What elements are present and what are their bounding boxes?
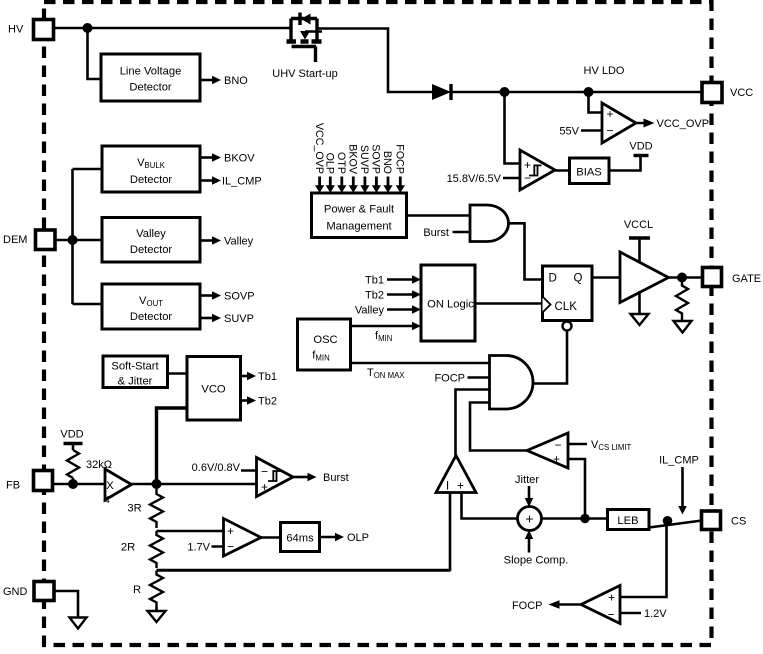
svg-text:32kΩ: 32kΩ xyxy=(86,459,112,471)
svg-text:R: R xyxy=(133,584,141,596)
svg-text:BKOV: BKOV xyxy=(347,144,359,175)
svg-text:Slope Comp.: Slope Comp. xyxy=(504,555,569,567)
svg-text:+: + xyxy=(525,511,533,527)
svg-text:& Jitter: & Jitter xyxy=(118,376,153,388)
svg-text:+: + xyxy=(608,591,615,605)
svg-text:Tb1: Tb1 xyxy=(365,275,384,287)
svg-text:IL_CMP: IL_CMP xyxy=(222,176,262,188)
svg-text:D: D xyxy=(549,273,557,285)
svg-text:HV LDO: HV LDO xyxy=(584,65,625,77)
svg-text:−: − xyxy=(607,608,614,622)
svg-text:64ms: 64ms xyxy=(286,533,314,545)
svg-text:VDD: VDD xyxy=(629,141,652,153)
svg-text:+: + xyxy=(553,452,560,466)
svg-text:DEM: DEM xyxy=(3,234,27,246)
svg-text:HV: HV xyxy=(8,24,24,36)
svg-text:+: + xyxy=(524,158,531,172)
svg-text:X: X xyxy=(106,480,114,492)
svg-text:ON Logic: ON Logic xyxy=(427,299,474,311)
svg-text:Valley: Valley xyxy=(355,305,385,317)
svg-text:Tb2: Tb2 xyxy=(258,396,277,408)
svg-text:+: + xyxy=(606,107,613,121)
svg-text:−: − xyxy=(261,465,268,479)
svg-text:Tb1: Tb1 xyxy=(258,371,277,383)
svg-text:BIAS: BIAS xyxy=(576,167,602,179)
svg-text:Jitter: Jitter xyxy=(515,474,540,486)
svg-text:CS: CS xyxy=(731,516,746,528)
svg-text:OSC: OSC xyxy=(313,334,337,346)
svg-text:−: − xyxy=(554,438,561,452)
svg-text:+: + xyxy=(227,524,234,538)
svg-text:Detector: Detector xyxy=(130,311,173,323)
svg-text:GATE: GATE xyxy=(732,273,761,285)
svg-text:Management: Management xyxy=(326,221,392,233)
svg-text:1.7V: 1.7V xyxy=(187,542,210,554)
svg-text:Tb2: Tb2 xyxy=(365,290,384,302)
svg-text:Power & Fault: Power & Fault xyxy=(324,204,395,216)
svg-text:1.2V: 1.2V xyxy=(644,608,667,620)
svg-text:55V: 55V xyxy=(559,126,579,138)
svg-text:VCO: VCO xyxy=(201,384,226,396)
svg-text:Line Voltage: Line Voltage xyxy=(120,66,182,78)
svg-text:Q: Q xyxy=(574,273,583,285)
svg-text:Soft-Start: Soft-Start xyxy=(111,361,159,373)
svg-text:Detector: Detector xyxy=(130,174,173,186)
svg-text:BNO: BNO xyxy=(224,75,248,87)
svg-text:0.6V/0.8V: 0.6V/0.8V xyxy=(192,462,241,474)
svg-text:Burst: Burst xyxy=(323,472,349,484)
svg-text:−: − xyxy=(227,540,234,554)
svg-text:15.8V/6.5V: 15.8V/6.5V xyxy=(447,173,502,185)
svg-text:−: − xyxy=(606,124,613,138)
svg-text:FOCP: FOCP xyxy=(434,373,465,385)
svg-text:BNO: BNO xyxy=(381,151,393,174)
svg-text:OLP: OLP xyxy=(347,532,369,544)
svg-text:VCC_OVP: VCC_OVP xyxy=(657,118,710,130)
svg-text:FB: FB xyxy=(6,480,20,492)
svg-text:4: 4 xyxy=(104,495,110,506)
svg-text:VCC: VCC xyxy=(730,87,753,99)
svg-text:2R: 2R xyxy=(121,542,135,554)
svg-text:SOVP: SOVP xyxy=(224,291,255,303)
svg-text:LEB: LEB xyxy=(617,515,638,527)
svg-text:VCCL: VCCL xyxy=(624,219,653,231)
svg-text:CLK: CLK xyxy=(555,301,578,313)
svg-text:SUVP: SUVP xyxy=(358,145,370,174)
svg-text:Detector: Detector xyxy=(130,244,173,256)
svg-text:I: I xyxy=(446,479,449,493)
svg-text:BKOV: BKOV xyxy=(224,153,255,165)
svg-text:SOVP: SOVP xyxy=(370,144,382,174)
svg-text:Detector: Detector xyxy=(129,82,172,94)
svg-text:−: − xyxy=(524,171,531,185)
svg-text:Valley: Valley xyxy=(224,236,254,248)
svg-text:SUVP: SUVP xyxy=(224,313,254,325)
svg-text:Valley: Valley xyxy=(136,228,166,240)
svg-text:IL_CMP: IL_CMP xyxy=(659,455,699,467)
svg-text:GND: GND xyxy=(3,586,28,598)
svg-text:FOCP: FOCP xyxy=(394,144,406,174)
svg-text:3R: 3R xyxy=(127,503,141,515)
svg-text:VCC_OVP: VCC_OVP xyxy=(313,123,325,174)
svg-text:+: + xyxy=(457,479,464,493)
svg-text:UHV Start-up: UHV Start-up xyxy=(272,68,337,80)
svg-text:FOCP: FOCP xyxy=(512,600,543,612)
svg-text:VDD: VDD xyxy=(60,429,83,441)
svg-text:OTP: OTP xyxy=(335,152,347,174)
svg-text:Burst: Burst xyxy=(423,227,449,239)
svg-text:OLP: OLP xyxy=(324,153,336,174)
svg-text:+: + xyxy=(261,480,268,494)
